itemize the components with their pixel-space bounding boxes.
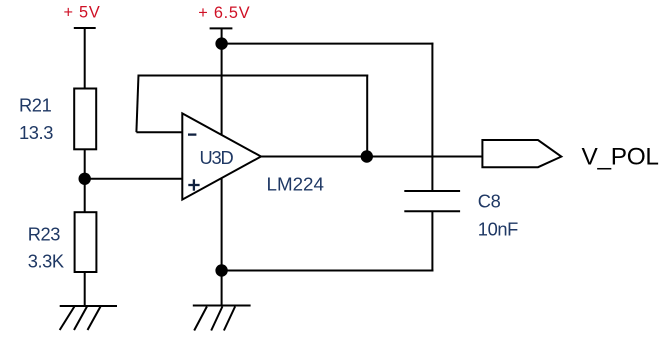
right vertical wire to capacitor C8 <box>431 43 433 191</box>
capacitor C8 bottom plate <box>404 210 460 212</box>
op-amp plus sign <box>188 179 199 190</box>
label U3D <box>200 147 234 168</box>
feedback wire top horizontal <box>138 75 369 77</box>
label LM224 <box>267 174 324 195</box>
junction dot node A <box>79 173 91 185</box>
output connector V_POL <box>482 140 561 167</box>
label +6.5V <box>198 4 250 22</box>
label 13.3 (R21 value) <box>19 122 53 143</box>
label 3.3K (R23 value) <box>28 251 64 272</box>
wire node A to op-amp + input <box>84 178 183 180</box>
label +5V <box>64 4 101 22</box>
wire capacitor C8 to bottom wire <box>431 211 433 271</box>
wire op-amp V- pin down to bottom junction <box>221 177 223 271</box>
feedback wire left vertical <box>136 75 138 133</box>
bottom wire junction to capacitor branch <box>222 270 434 272</box>
svg-text:R23: R23 <box>28 223 61 244</box>
ground (left) <box>60 306 117 330</box>
svg-text:10nF: 10nF <box>478 219 518 240</box>
svg-text:LM224: LM224 <box>267 174 324 195</box>
label C8 <box>478 191 501 212</box>
junction dot bottom wire <box>215 264 227 276</box>
svg-text:C8: C8 <box>478 191 501 212</box>
wire node A to R23 <box>84 178 86 213</box>
op-amp U3D triangle <box>182 113 261 199</box>
svg-text:13.3: 13.3 <box>19 122 53 143</box>
wire R23 to ground <box>84 271 86 306</box>
feedback wire right vertical <box>366 75 368 158</box>
wire bottom junction to ground <box>221 270 223 306</box>
wire +6.5V bar to junction <box>221 28 223 44</box>
+5V power bar <box>74 27 96 29</box>
svg-text:3.3K: 3.3K <box>28 251 64 272</box>
wire R21 to node A <box>84 148 86 180</box>
label R21 <box>19 95 52 116</box>
svg-text:+ 5V: + 5V <box>64 4 101 22</box>
svg-text:+ 6.5V: + 6.5V <box>198 4 250 22</box>
junction dot at +6.5V <box>215 37 227 49</box>
feedback wire to op-amp - input <box>136 131 183 133</box>
output wire op-amp to connector <box>259 156 482 158</box>
+6.5V power bar <box>210 27 233 29</box>
wire +6.5V junction to right vertical <box>222 43 434 45</box>
wire +5V bar to R21 <box>84 28 86 90</box>
resistor R23 <box>75 212 97 272</box>
resistor R21 <box>74 89 96 150</box>
ground (right) <box>193 306 251 331</box>
label V_POL net name <box>582 143 659 170</box>
svg-text:V_POL: V_POL <box>582 143 659 170</box>
svg-text:R21: R21 <box>19 95 52 116</box>
svg-text:U3D: U3D <box>200 147 234 168</box>
label 10nF (C8 value) <box>478 219 518 240</box>
label R23 <box>28 223 61 244</box>
wire +6.5V junction down to op-amp V+ pin <box>221 44 223 136</box>
capacitor C8 top plate <box>404 190 460 192</box>
junction dot output node <box>361 150 373 162</box>
op-amp minus sign <box>188 133 196 135</box>
